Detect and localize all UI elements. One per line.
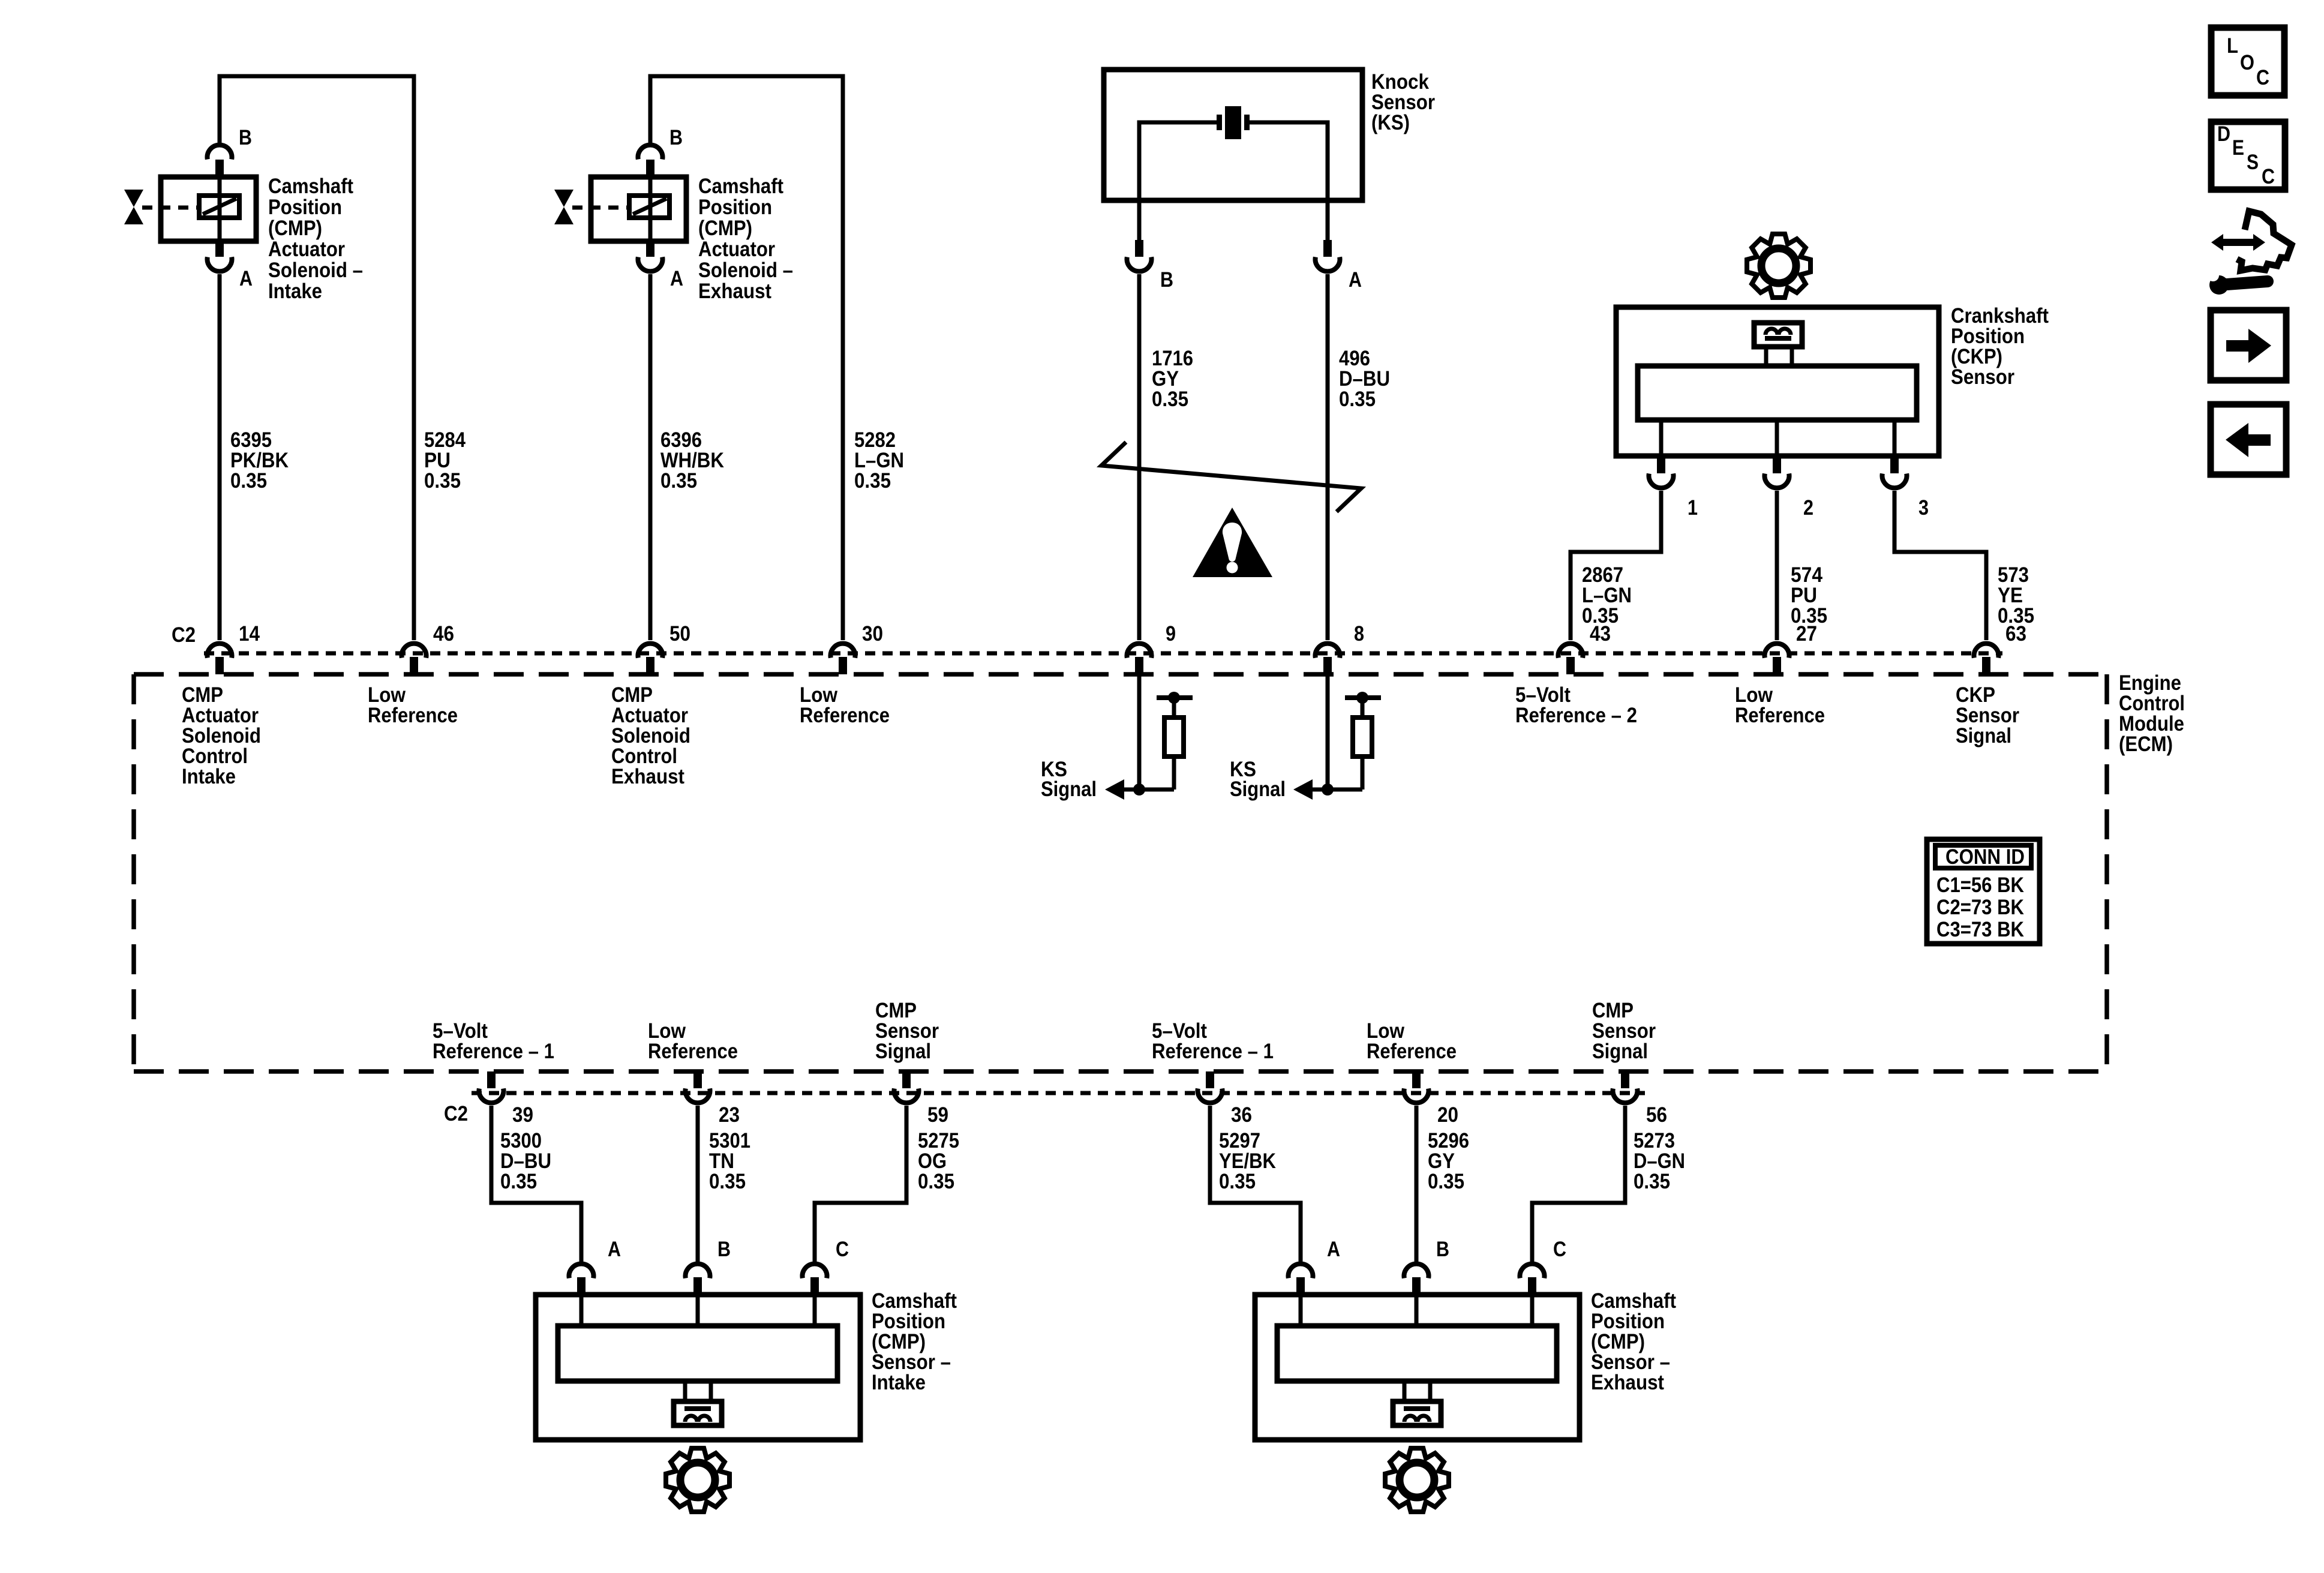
svg-text:14: 14: [239, 622, 260, 646]
svg-text:Actuator: Actuator: [268, 238, 345, 261]
wire 5301: [696, 1106, 700, 1262]
ECM pin 9 connector: [1127, 644, 1152, 658]
connector pin B knock sensor: [1135, 240, 1143, 257]
CMP sensor outer box: [1255, 1295, 1580, 1440]
wire 5273: [1532, 1106, 1625, 1262]
connector pin B Intake solenoid: [208, 145, 232, 160]
svg-text:C1=56 BK: C1=56 BK: [1936, 873, 2024, 897]
pickup element: [674, 1401, 722, 1425]
svg-text:Solenoid –: Solenoid –: [698, 259, 793, 282]
ECM pin 59 connector: [902, 1071, 911, 1088]
wire 1716 to ECM pin 9: [1137, 274, 1142, 640]
sensor body bar: [1277, 1326, 1557, 1381]
svg-text:27: 27: [1796, 622, 1817, 646]
svg-text:56: 56: [1646, 1103, 1667, 1127]
connector pin A knock sensor: [1323, 240, 1332, 257]
svg-text:46: 46: [433, 622, 454, 646]
svg-text:D: D: [2217, 122, 2230, 146]
svg-text:Signal: Signal: [875, 1040, 931, 1063]
svg-text:23: 23: [719, 1103, 740, 1127]
connector pin B: [685, 1264, 710, 1278]
svg-text:C: C: [2256, 66, 2269, 89]
svg-text:Reference: Reference: [368, 704, 458, 727]
junction dot: [1133, 784, 1145, 795]
svg-text:(CMP): (CMP): [268, 217, 322, 240]
svg-text:0.35: 0.35: [854, 469, 891, 493]
solenoid valve symbol: [554, 190, 574, 207]
wire 5275: [815, 1106, 906, 1262]
svg-text:1: 1: [1688, 496, 1698, 520]
ECM pin 23 connector: [693, 1071, 702, 1088]
ECM pin 8 connector: [1316, 644, 1340, 658]
svg-text:3: 3: [1918, 496, 1929, 520]
piezo element: [1217, 115, 1222, 130]
CMP sensor outer box: [536, 1295, 860, 1440]
CKP body bar: [1638, 366, 1917, 420]
connector pin A Intake solenoid: [215, 241, 224, 257]
svg-text:S: S: [2247, 151, 2259, 174]
resistor lead: [1172, 757, 1176, 789]
svg-text:B: B: [1436, 1238, 1449, 1261]
svg-text:Signal: Signal: [1230, 778, 1286, 801]
svg-text:A: A: [1327, 1238, 1340, 1261]
svg-text:Actuator: Actuator: [698, 238, 775, 261]
wire 5296: [1415, 1106, 1419, 1262]
double arrow: [2211, 234, 2265, 251]
ECM pin 30 connector: [831, 644, 855, 658]
svg-text:A: A: [670, 267, 683, 290]
connector pin B: [1404, 1264, 1429, 1278]
ECM pin 39 connector: [487, 1071, 496, 1088]
wire 2867 to pin 43: [1571, 491, 1661, 640]
svg-text:39: 39: [512, 1103, 533, 1127]
svg-text:8: 8: [1354, 622, 1364, 646]
back arrow icon: [2211, 404, 2286, 475]
connector pin 1: [1657, 456, 1665, 473]
svg-text:Reference – 1: Reference – 1: [433, 1040, 554, 1063]
pickup element stem: [683, 1381, 687, 1401]
svg-text:Solenoid –: Solenoid –: [268, 259, 363, 282]
svg-text:C2: C2: [444, 1102, 468, 1125]
CONN ID table: [1927, 839, 2040, 944]
junction dot: [1356, 692, 1368, 704]
arrow to KS signal: [1105, 779, 1124, 800]
internal rail bar: [1157, 695, 1193, 700]
svg-text:Intake: Intake: [872, 1371, 926, 1394]
solenoid coil element: [629, 196, 669, 218]
CKP reluctor gear: [1747, 234, 1810, 298]
svg-text:A: A: [239, 267, 253, 290]
svg-text:59: 59: [927, 1103, 948, 1127]
wire 574 to pin 27: [1775, 491, 1779, 640]
svg-text:0.35: 0.35: [230, 469, 267, 493]
ECM pin 14 connector: [208, 644, 232, 658]
internal wiring: [1139, 122, 1217, 241]
svg-text:CONN ID: CONN ID: [1945, 845, 2025, 869]
svg-text:0.35: 0.35: [709, 1170, 746, 1193]
svg-text:Reference: Reference: [1367, 1040, 1457, 1063]
svg-text:Signal: Signal: [1956, 724, 2011, 748]
internal rail bar: [1345, 695, 1381, 700]
connector pin 2: [1773, 456, 1781, 473]
resistor lead: [1172, 698, 1176, 718]
svg-text:0.35: 0.35: [1339, 388, 1376, 411]
svg-text:C: C: [2262, 165, 2275, 188]
knock sensor KS box: [1104, 70, 1362, 200]
connector pin A: [1289, 1264, 1313, 1278]
connector C2 dotted interface line top: [204, 652, 2002, 656]
svg-text:Position: Position: [698, 196, 772, 219]
svg-text:C2=73 BK: C2=73 BK: [1936, 896, 2024, 919]
svg-text:Reference – 2: Reference – 2: [1515, 704, 1637, 727]
svg-text:E: E: [2232, 136, 2244, 160]
wire 496 to ECM pin 8: [1326, 274, 1330, 640]
svg-text:0.35: 0.35: [1634, 1170, 1670, 1193]
sensor leads: [1299, 1295, 1303, 1326]
ECM pin 50 connector: [638, 644, 663, 658]
svg-text:A: A: [1349, 268, 1362, 292]
wire through solenoid: [218, 177, 222, 241]
svg-text:C2: C2: [172, 623, 196, 647]
twisted pair symbol: [1101, 442, 1361, 512]
svg-text:Intake: Intake: [268, 280, 322, 303]
connector pin C: [803, 1264, 827, 1278]
solenoid outer box: [591, 177, 686, 241]
arrow to KS signal: [1293, 779, 1313, 800]
reluctor gear: [1385, 1448, 1449, 1512]
connector pin A: [569, 1264, 594, 1278]
resistor: [1164, 718, 1184, 757]
pickup element stem: [1403, 1381, 1407, 1401]
svg-text:0.35: 0.35: [424, 469, 461, 493]
reluctor gear: [666, 1448, 729, 1512]
solenoid outer box: [161, 177, 256, 241]
svg-text:O: O: [2240, 51, 2254, 74]
svg-text:9: 9: [1166, 622, 1176, 646]
wire to ECM: [648, 274, 653, 640]
svg-text:(ECM): (ECM): [2119, 733, 2173, 756]
sensor body bar: [558, 1326, 837, 1381]
wire from pin inside ECM: [1326, 674, 1330, 789]
svg-text:B: B: [239, 126, 252, 149]
junction dot: [1322, 784, 1334, 795]
ECM pin 36 connector: [1206, 1071, 1214, 1088]
wire 5297: [1210, 1106, 1301, 1262]
sensor leads: [580, 1295, 584, 1326]
wire loop Exhaust solenoid: [650, 76, 843, 640]
svg-text:C: C: [1553, 1238, 1566, 1261]
repair instructions hand-wrench icon: [2237, 211, 2292, 271]
wire loop Intake solenoid: [220, 76, 414, 640]
svg-text:B: B: [717, 1238, 731, 1261]
svg-text:43: 43: [1590, 622, 1611, 646]
svg-text:0.35: 0.35: [918, 1170, 954, 1193]
engine control module ECM dashed border: [134, 672, 2107, 677]
svg-text:Exhaust: Exhaust: [611, 765, 684, 788]
svg-text:Camshaft: Camshaft: [268, 175, 353, 198]
ECM pin 46 connector: [401, 644, 426, 658]
svg-text:0.35: 0.35: [1219, 1170, 1256, 1193]
KS signal line: [1123, 788, 1174, 792]
connector pin A Exhaust solenoid: [646, 241, 654, 257]
svg-text:63: 63: [2005, 622, 2026, 646]
LOC icon box: [2211, 28, 2284, 95]
connector pin B Exhaust solenoid: [638, 145, 663, 160]
wire through solenoid: [648, 177, 653, 241]
svg-text:B: B: [669, 126, 683, 149]
wire 573 to pin 63: [1894, 491, 1986, 640]
connector pin C: [1520, 1264, 1545, 1278]
solenoid coil element: [199, 196, 239, 218]
svg-text:L: L: [2227, 34, 2238, 58]
wire from pin inside ECM: [1137, 674, 1142, 789]
svg-text:2: 2: [1803, 496, 1813, 520]
junction dot: [1168, 692, 1180, 704]
wrench: [2227, 281, 2268, 284]
ECM pin 56 connector: [1621, 1071, 1629, 1088]
svg-text:Signal: Signal: [1041, 778, 1097, 801]
svg-text:Reference: Reference: [648, 1040, 738, 1063]
svg-text:Reference: Reference: [1735, 704, 1825, 727]
solenoid valve symbol: [124, 190, 143, 207]
ECM pin 20 connector: [1412, 1071, 1421, 1088]
svg-text:Intake: Intake: [182, 765, 236, 788]
svg-text:(KS): (KS): [1371, 111, 1410, 134]
svg-text:Camshaft: Camshaft: [698, 175, 783, 198]
svg-text:0.35: 0.35: [660, 469, 697, 493]
CKP pickup element: [1754, 323, 1802, 347]
svg-text:B: B: [1160, 268, 1173, 292]
svg-text:30: 30: [862, 622, 883, 646]
forward arrow icon: [2211, 310, 2286, 380]
CKP leads: [1659, 420, 1664, 457]
resistor lead: [1361, 757, 1365, 789]
svg-text:Sensor: Sensor: [1951, 365, 2014, 389]
svg-text:36: 36: [1231, 1103, 1252, 1127]
ECM pin 43 connector: [1559, 644, 1583, 658]
svg-text:Exhaust: Exhaust: [1591, 1371, 1664, 1394]
resistor lead: [1361, 698, 1365, 718]
connector pin 3: [1890, 456, 1899, 473]
element stem: [1764, 347, 1768, 366]
ECM pin 63 connector: [1974, 644, 1999, 658]
DESC icon box: [2211, 122, 2285, 190]
svg-text:Position: Position: [268, 196, 342, 219]
wire to ECM: [218, 274, 222, 640]
svg-text:C3=73 BK: C3=73 BK: [1936, 918, 2024, 941]
crankshaft position sensor box: [1616, 307, 1939, 456]
wire 5300: [491, 1106, 581, 1262]
pickup element: [1393, 1401, 1441, 1425]
ECM pin 27 connector: [1764, 644, 1789, 658]
svg-text:A: A: [608, 1238, 621, 1261]
svg-text:20: 20: [1437, 1103, 1458, 1127]
svg-text:Reference – 1: Reference – 1: [1152, 1040, 1274, 1063]
resistor: [1353, 718, 1372, 757]
svg-text:50: 50: [669, 622, 690, 646]
svg-text:Reference: Reference: [800, 704, 890, 727]
svg-text:(CMP): (CMP): [698, 217, 752, 240]
svg-text:C: C: [836, 1238, 849, 1261]
svg-text:0.35: 0.35: [1152, 388, 1188, 411]
warning triangle: [1193, 508, 1272, 577]
svg-text:0.35: 0.35: [1428, 1170, 1464, 1193]
svg-text:Signal: Signal: [1592, 1040, 1648, 1063]
svg-text:0.35: 0.35: [500, 1170, 537, 1193]
svg-text:Exhaust: Exhaust: [698, 280, 771, 303]
connector C2 dotted interface line bottom: [472, 1091, 1645, 1095]
KS signal line: [1311, 788, 1362, 792]
